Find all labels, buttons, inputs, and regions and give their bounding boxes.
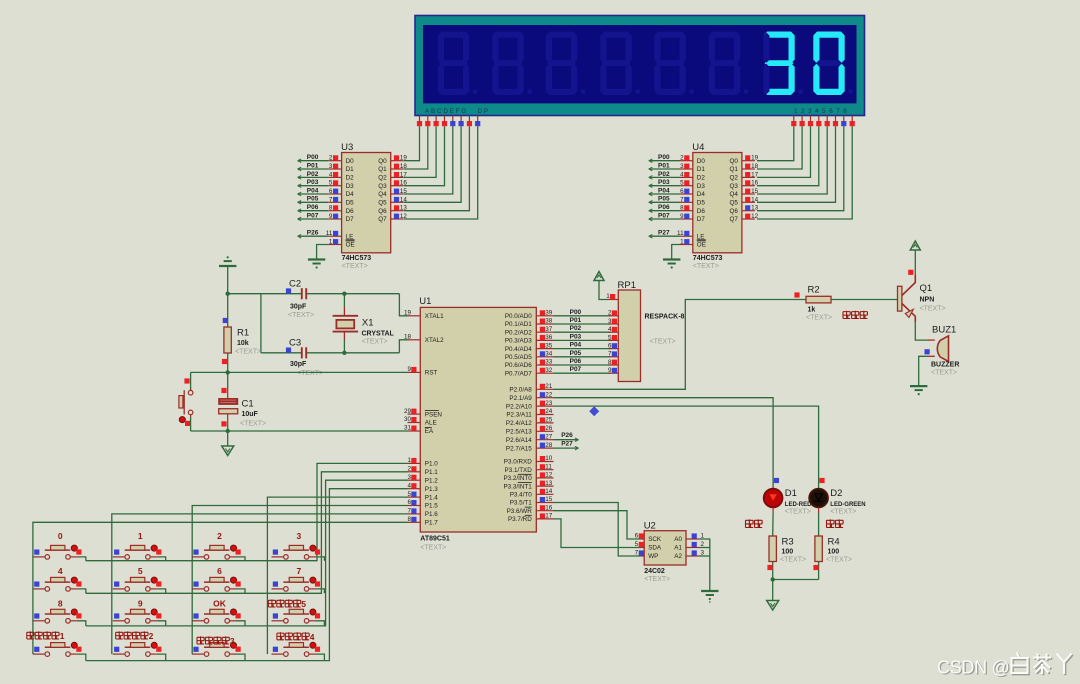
wire P1.3 row bus	[86, 489, 408, 661]
svg-text:OK: OK	[213, 599, 227, 609]
svg-text:<TEXT>: <TEXT>	[826, 557, 852, 564]
U1 pin P3.6	[507, 504, 554, 515]
wire	[77, 621, 86, 626]
wire	[772, 580, 774, 601]
push button OK	[192, 599, 241, 624]
svg-text:D3: D3	[697, 183, 706, 190]
svg-text:LE: LE	[346, 233, 354, 240]
svg-text:<TEXT>: <TEXT>	[420, 545, 446, 552]
svg-text:Q1: Q1	[378, 166, 387, 173]
U1 pin P0.1	[505, 318, 554, 329]
RP1 pin 1	[606, 293, 618, 300]
svg-text:P01: P01	[658, 162, 670, 169]
resistor pack RP1 RESPACK-8	[618, 280, 685, 382]
U1 pin P1.3	[407, 482, 438, 493]
svg-text:P3.6/WR: P3.6/WR	[507, 508, 533, 515]
wire	[554, 331, 611, 333]
junction	[226, 292, 230, 296]
svg-text:P00: P00	[658, 154, 670, 161]
svg-text:17: 17	[400, 171, 408, 178]
transistor Q1 NPN	[898, 270, 946, 322]
svg-text:3: 3	[407, 474, 411, 481]
net label P07	[570, 366, 582, 373]
svg-text:NPN: NPN	[920, 297, 935, 304]
U4 pin Q1	[742, 163, 759, 170]
svg-text:P01: P01	[570, 317, 582, 324]
svg-text:6: 6	[635, 533, 639, 540]
svg-text:P2.3/A11: P2.3/A11	[506, 412, 532, 419]
ground	[910, 386, 927, 395]
wire EA/GND net	[191, 430, 408, 432]
buzzer BUZ1	[925, 325, 960, 377]
svg-text:Q5: Q5	[378, 200, 387, 207]
wire P2.2 to D2	[554, 406, 819, 489]
U1 pin P3.0	[504, 455, 554, 466]
svg-text:D2: D2	[830, 488, 842, 499]
U3 pin D3 net P03	[298, 179, 342, 187]
wire	[77, 589, 86, 593]
svg-text:5: 5	[301, 599, 306, 609]
wire	[261, 352, 301, 354]
svg-text:D2: D2	[346, 175, 355, 182]
U4 pin Q3	[742, 180, 759, 187]
svg-text:22: 22	[545, 391, 553, 398]
display segment pins A-DP	[417, 116, 480, 127]
U4 pin Q6	[742, 205, 759, 212]
svg-text:100: 100	[782, 549, 794, 556]
svg-text:11: 11	[326, 230, 333, 237]
svg-text:A2: A2	[674, 553, 682, 560]
svg-text:3: 3	[329, 163, 333, 170]
svg-text:Q2: Q2	[378, 175, 387, 182]
svg-text:P27: P27	[658, 230, 670, 237]
ground	[219, 256, 236, 266]
svg-text:XTAL2: XTAL2	[425, 337, 444, 344]
reset button	[179, 372, 193, 431]
U1 pin P0.6	[505, 359, 554, 370]
svg-text:4: 4	[310, 632, 315, 642]
wire	[404, 126, 436, 177]
wire P3.7 to U2 SDA	[554, 519, 641, 548]
wire P1.5 column	[192, 506, 407, 655]
capacitor C1 10uF	[219, 372, 266, 431]
svg-text:33: 33	[545, 359, 553, 366]
latch U4 74HC573	[692, 142, 742, 270]
svg-text:U1: U1	[419, 296, 431, 307]
watermark	[937, 653, 1073, 679]
svg-text:1: 1	[329, 239, 333, 246]
wire	[554, 339, 611, 341]
wire	[831, 299, 898, 301]
svg-text:<TEXT>: <TEXT>	[240, 421, 266, 428]
U4 pin D6 net P06	[649, 204, 693, 212]
svg-text:24C02: 24C02	[644, 568, 665, 575]
svg-text:P2.0/A8: P2.0/A8	[509, 387, 532, 394]
svg-text:Q6: Q6	[378, 208, 387, 215]
svg-text:AT89C51: AT89C51	[420, 536, 450, 543]
svg-text:C1: C1	[242, 399, 254, 410]
svg-text:16: 16	[545, 504, 553, 511]
U3 pin Q4	[391, 188, 408, 195]
svg-text:P0.7/AD7: P0.7/AD7	[505, 370, 532, 377]
svg-text:C3: C3	[289, 337, 301, 348]
svg-text:25: 25	[545, 417, 553, 424]
svg-text:D5: D5	[346, 200, 355, 207]
U4 pin Q5	[742, 196, 759, 203]
wire	[554, 323, 611, 325]
resistor R1 10k	[222, 294, 261, 373]
svg-text:P05: P05	[570, 350, 582, 357]
svg-text:Q7: Q7	[378, 216, 387, 223]
resistor R4 100	[813, 507, 852, 579]
svg-text:4: 4	[329, 171, 333, 178]
net label P02	[570, 325, 582, 332]
label buzzer (chinese)	[843, 311, 867, 319]
wire	[227, 266, 229, 294]
wire	[315, 557, 324, 561]
svg-text:3: 3	[608, 318, 612, 325]
svg-text:5: 5	[635, 541, 639, 548]
U1 pin P0.5	[505, 351, 554, 362]
svg-text:P0.5/AD5: P0.5/AD5	[505, 354, 532, 361]
svg-text:XTAL1: XTAL1	[425, 313, 444, 320]
svg-text:2: 2	[149, 631, 154, 641]
svg-text:D1: D1	[697, 166, 706, 173]
junction	[342, 351, 346, 355]
svg-text:<TEXT>: <TEXT>	[644, 576, 670, 583]
svg-text:P1.0: P1.0	[425, 461, 438, 468]
svg-text:P05: P05	[307, 196, 319, 203]
svg-text:ALE: ALE	[425, 420, 437, 427]
svg-text:P26: P26	[561, 432, 573, 439]
svg-text:SCK: SCK	[648, 536, 662, 543]
svg-text:6: 6	[329, 188, 333, 195]
U3 pin Q6	[391, 205, 408, 212]
svg-text:8: 8	[407, 516, 411, 523]
net label P00	[570, 309, 582, 316]
U3 pin D6 net P06	[298, 204, 342, 212]
svg-text:38: 38	[545, 318, 553, 325]
svg-text:PSEN: PSEN	[425, 411, 443, 418]
U1 pin P3.1	[505, 463, 554, 474]
svg-text:Q4: Q4	[378, 191, 387, 198]
RP1 pin 3	[608, 318, 618, 325]
svg-text:P04: P04	[307, 187, 319, 194]
svg-text:U4: U4	[692, 142, 704, 153]
push button 6	[192, 566, 241, 591]
U1 pin P2.1	[509, 391, 553, 402]
wire	[554, 356, 611, 358]
svg-text:9: 9	[407, 366, 411, 373]
U1 pin P0.0	[505, 310, 554, 321]
resistor R3 100	[767, 507, 806, 579]
svg-text:A1: A1	[674, 545, 682, 552]
LED D1 LED-RED (lit)	[764, 478, 812, 516]
U4 pin D3 net P03	[649, 179, 693, 187]
push button 2	[192, 531, 241, 559]
U1 pin P1.1	[407, 466, 438, 477]
svg-text:<TEXT>: <TEXT>	[785, 508, 811, 515]
svg-text:P1.4: P1.4	[425, 494, 438, 501]
ground	[222, 446, 234, 456]
svg-text:U3: U3	[341, 142, 353, 153]
svg-text:D1: D1	[346, 166, 355, 173]
U1 pin P0.2	[505, 326, 554, 337]
U4 pin D7 net P07	[649, 212, 693, 220]
wire P3.5 to U2 WP	[554, 503, 641, 557]
net terminal P27	[554, 441, 579, 450]
U1 pin PSEN	[404, 408, 442, 419]
U4 pin Q4	[742, 188, 759, 195]
svg-text:21: 21	[545, 383, 553, 390]
svg-text:R3: R3	[782, 537, 794, 548]
svg-text:P04: P04	[570, 342, 582, 349]
wire	[757, 126, 836, 202]
wire	[404, 126, 453, 194]
eeprom U2 24C02	[644, 520, 686, 583]
U3 pin D7 net P07	[298, 212, 342, 220]
svg-text:D0: D0	[346, 158, 355, 165]
svg-text:P1.2: P1.2	[425, 477, 438, 484]
svg-text:6: 6	[217, 566, 222, 576]
svg-text:P2.6/A14: P2.6/A14	[506, 437, 532, 444]
U1 pin P2.4	[506, 417, 554, 428]
display digit-select pins 1-8	[791, 116, 855, 127]
U3 pin Q7	[391, 213, 408, 220]
svg-text:12: 12	[751, 213, 759, 220]
svg-text:28: 28	[545, 442, 553, 449]
U1 pin XTAL1	[404, 310, 444, 321]
U1 pin P3.3	[503, 480, 553, 491]
svg-text:5: 5	[138, 566, 143, 576]
svg-text:P3.5/T1: P3.5/T1	[510, 500, 533, 507]
svg-text:10uF: 10uF	[242, 411, 259, 418]
svg-text:12: 12	[545, 472, 553, 479]
ground	[701, 591, 718, 603]
wire	[157, 654, 166, 661]
svg-text:14: 14	[545, 488, 553, 495]
svg-text:RESPACK-8: RESPACK-8	[645, 314, 685, 321]
svg-text:RP1: RP1	[618, 280, 636, 291]
svg-text:LE: LE	[697, 233, 705, 240]
svg-text:P06: P06	[658, 204, 670, 211]
ground	[308, 260, 325, 269]
svg-text:SDA: SDA	[648, 545, 662, 552]
U1 pin P0.7	[505, 367, 554, 378]
svg-text:<TEXT>: <TEXT>	[780, 557, 806, 564]
svg-text:P00: P00	[307, 154, 319, 161]
wire	[157, 589, 166, 593]
svg-text:P3.7/RD: P3.7/RD	[508, 516, 532, 523]
push button change-code 2	[113, 631, 162, 656]
power terminal VCC	[910, 241, 920, 275]
svg-text:R2: R2	[808, 285, 820, 296]
resistor R2 1k	[794, 285, 832, 322]
svg-text:P3.0/RXD: P3.0/RXD	[504, 459, 532, 466]
wire	[236, 557, 245, 561]
U1 pin P2.3	[506, 408, 553, 419]
svg-text:9: 9	[329, 213, 333, 220]
svg-text:P1.7: P1.7	[425, 520, 438, 527]
wire	[307, 352, 399, 354]
U1 pin P3.2	[503, 472, 553, 483]
svg-text:3: 3	[297, 531, 302, 541]
svg-text:D5: D5	[697, 200, 706, 207]
svg-text:4: 4	[407, 482, 411, 489]
svg-text:7: 7	[297, 566, 302, 576]
svg-text:2: 2	[407, 466, 411, 473]
push button change-code 5	[268, 599, 320, 623]
wire P1.7 column	[33, 522, 408, 654]
wire	[315, 654, 324, 661]
wire	[672, 245, 680, 260]
svg-text:<TEXT>: <TEXT>	[342, 263, 368, 270]
svg-text:P0.0/AD0: P0.0/AD0	[505, 313, 532, 320]
wire	[404, 126, 478, 219]
svg-text:2: 2	[217, 531, 222, 541]
svg-text:<TEXT>: <TEXT>	[288, 312, 314, 319]
svg-text:BUZZER: BUZZER	[931, 362, 959, 369]
svg-text:<TEXT>: <TEXT>	[806, 315, 832, 322]
U1 pin P1.7	[407, 516, 438, 527]
svg-text:13: 13	[751, 205, 759, 212]
U3 pin Q0	[391, 155, 408, 162]
U4 pin D5 net P05	[649, 196, 693, 204]
push button 8	[33, 599, 82, 624]
svg-text:P2.4/A12: P2.4/A12	[506, 420, 532, 427]
U2 pin 6	[635, 533, 645, 540]
svg-text:<TEXT>: <TEXT>	[920, 306, 946, 313]
svg-text:7: 7	[608, 351, 612, 358]
svg-text:16: 16	[751, 180, 759, 187]
wire P1.4 column	[267, 497, 407, 654]
svg-text:R1: R1	[237, 328, 249, 339]
net label P01	[570, 317, 582, 324]
svg-text:P0.4/AD4: P0.4/AD4	[505, 346, 532, 353]
svg-text:6: 6	[608, 343, 612, 350]
svg-text:1: 1	[407, 457, 411, 464]
svg-text:17: 17	[751, 171, 759, 178]
svg-text:4: 4	[680, 171, 684, 178]
wire	[77, 654, 86, 661]
U3 pin D5 net P05	[298, 196, 342, 204]
LED D2 LED-GREEN (off)	[809, 478, 865, 516]
U1 pin EA	[404, 425, 434, 436]
svg-text:<TEXT>: <TEXT>	[235, 349, 261, 356]
svg-text:5: 5	[608, 334, 612, 341]
svg-text:17: 17	[545, 513, 553, 520]
wire P3.6 to U2 SCK	[554, 511, 641, 539]
svg-text:WP: WP	[648, 553, 658, 560]
U1 pin P2.7	[506, 442, 554, 453]
power terminal VCC	[594, 272, 607, 300]
svg-text:P04: P04	[658, 187, 670, 194]
U1 pin XTAL2	[404, 334, 444, 345]
wire	[157, 557, 166, 561]
svg-text:2: 2	[680, 155, 684, 162]
wire	[399, 340, 407, 353]
svg-text:34: 34	[545, 351, 553, 358]
wire	[404, 126, 428, 169]
svg-text:CSDN @: CSDN @	[937, 657, 1009, 677]
svg-text:OE: OE	[697, 242, 706, 249]
svg-text:D6: D6	[697, 208, 706, 215]
svg-text:P2.2/A10: P2.2/A10	[506, 403, 532, 410]
RP1 pin 9	[608, 367, 618, 374]
svg-text:23: 23	[545, 400, 553, 407]
U1 pin P1.4	[407, 491, 438, 502]
svg-text:11: 11	[677, 230, 684, 237]
svg-text:U2: U2	[644, 520, 656, 531]
U2 pin 1	[686, 533, 705, 540]
svg-text:<TEXT>: <TEXT>	[830, 508, 856, 515]
svg-text:19: 19	[751, 155, 759, 162]
svg-text:D0: D0	[697, 158, 706, 165]
svg-text:7: 7	[329, 196, 333, 203]
svg-text:12345678: 12345678	[794, 108, 850, 115]
ground	[663, 260, 680, 269]
push button 9	[113, 599, 162, 624]
svg-text:P2.5/A13: P2.5/A13	[506, 429, 532, 436]
svg-text:P03: P03	[570, 333, 582, 340]
svg-text:P06: P06	[570, 358, 582, 365]
svg-text:35: 35	[545, 342, 553, 349]
U3 pin Q3	[391, 180, 408, 187]
svg-text:74HC573: 74HC573	[693, 255, 723, 262]
wire	[157, 621, 166, 626]
wire	[404, 126, 469, 211]
U4 pin LE net P27	[649, 230, 693, 238]
svg-text:5: 5	[407, 491, 411, 498]
svg-text:Q3: Q3	[729, 183, 738, 190]
push button change-code 1	[27, 631, 82, 656]
U3 pin D1 net P01	[298, 162, 342, 170]
wire	[404, 126, 461, 202]
svg-text:74HC573: 74HC573	[342, 255, 372, 262]
U4 pin D0 net P00	[649, 154, 693, 162]
svg-text:P2.7/A15: P2.7/A15	[506, 445, 532, 452]
net label P04	[570, 342, 582, 349]
svg-text:Q7: Q7	[729, 216, 738, 223]
U4 pin D1 net P01	[649, 162, 693, 170]
svg-text:5: 5	[329, 180, 333, 187]
svg-text:13: 13	[400, 205, 408, 212]
U3 pin Q1	[391, 163, 408, 170]
svg-text:30: 30	[404, 416, 412, 423]
svg-text:Q5: Q5	[729, 200, 738, 207]
svg-text:P27: P27	[561, 441, 573, 448]
U1 pin ALE	[404, 416, 437, 427]
net label P03	[570, 333, 582, 340]
wire	[554, 315, 611, 317]
U3 pin D4 net P04	[298, 187, 342, 195]
svg-text:R4: R4	[828, 537, 840, 548]
svg-text:<TEXT>: <TEXT>	[362, 338, 388, 345]
svg-text:Q0: Q0	[378, 158, 387, 165]
RP1 pin 5	[608, 334, 618, 341]
wire	[554, 372, 611, 374]
svg-text:9: 9	[680, 213, 684, 220]
svg-text:X1: X1	[362, 318, 374, 329]
svg-text:D2: D2	[697, 175, 706, 182]
svg-text:D6: D6	[346, 208, 355, 215]
svg-text:Q2: Q2	[729, 175, 738, 182]
U4 pin D4 net P04	[649, 187, 693, 195]
wire	[260, 294, 262, 353]
svg-text:14: 14	[400, 196, 408, 203]
wire	[236, 621, 245, 626]
wire P2.1 to D1	[554, 398, 774, 489]
